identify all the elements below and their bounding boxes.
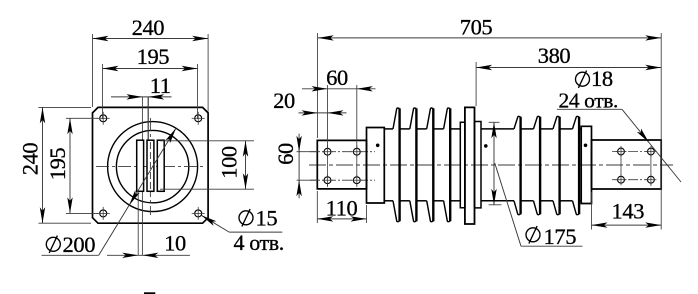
right view: left block hole 4 (353, 177, 360, 184)
svg-text:110: 110 (326, 196, 358, 221)
svg-text:100: 100 (217, 146, 242, 179)
dim diam 200: diameter symbol (46, 237, 60, 251)
svg-text:18: 18 (591, 66, 613, 91)
right view: left section shed 4 (444, 108, 451, 129)
right view: pin dot right of central flange (484, 145, 487, 148)
svg-text:15: 15 (256, 206, 278, 231)
svg-text:705: 705 (460, 15, 493, 40)
right view: core bottom edge segments (right section) (481, 200, 514, 202)
dim 20: extension line from hole column 1 (327, 85, 329, 149)
left view: mounting circle outer (diam 200) (108, 122, 198, 212)
dim 110: dimension line with arrows (317, 218, 366, 220)
dim 195 top: extension lines (102, 64, 104, 119)
svg-text:175: 175 (544, 224, 577, 249)
dim 60 left vertical: dimension line with outside arrows (298, 134, 300, 199)
svg-text:200: 200 (63, 232, 96, 257)
svg-text:240: 240 (18, 143, 43, 176)
right view: left adapter flange (367, 128, 385, 204)
dim 11 top: dimension line with outside arrows (111, 96, 172, 98)
svg-text:60: 60 (326, 65, 348, 90)
right view: left section shed 3 (427, 108, 434, 129)
view label letter (cut off at bottom) (144, 292, 155, 294)
left view: center line inside middle slot (149, 142, 151, 190)
right view: collar right of central flange (475, 122, 482, 208)
label diam 18: arrow on leader at hole (637, 129, 649, 143)
dim 195 left: extension lines (66, 117, 98, 119)
dim 60 left vertical: extension lines (297, 151, 317, 153)
dim diam 200: arrow upper right (165, 128, 176, 143)
right view: right end cap pin dot (584, 144, 587, 147)
left view: vertical center line through middle slot (149, 118, 151, 215)
right view: right block hole 2 (648, 148, 655, 155)
right view: left block hole 1 (324, 148, 331, 155)
right view: left adapter pin dot (376, 144, 379, 147)
dim 240 top: dimension line with arrows (93, 38, 209, 40)
right view: left block hole 3 (324, 177, 331, 184)
left view: corner hole top-left (100, 115, 107, 122)
dim 240 left: extension lines (39, 106, 92, 108)
dim 705: dimension line with arrows (318, 37, 661, 39)
right view: core top edge segments (right section) (481, 128, 514, 130)
left view: corner hole bottom-right (195, 210, 202, 217)
right view: left block hole 2 (353, 148, 360, 155)
dim 240 left: dimension line with arrows (42, 107, 44, 223)
left view: slot 2 (middle) (147, 140, 154, 191)
left view: flange plate outline (93, 107, 209, 223)
dim 20: dimension line with outside arrows (299, 112, 347, 114)
right view: right section shed 2 (534, 116, 541, 128)
left view: extension line pair for 11 dim (141, 97, 143, 255)
left view: slot 1 (137, 140, 144, 191)
right view: left terminal block (317, 140, 366, 189)
left view: mounting circle inner (116, 130, 188, 202)
right view: right section shed 4 (573, 116, 580, 128)
right view: right end cap (581, 126, 591, 203)
left view: corner hole bottom-left (100, 210, 107, 217)
svg-text:10: 10 (164, 230, 186, 255)
right view: core top edge segments (left section) (384, 128, 393, 130)
dim 380: extension line at central flange (475, 62, 477, 106)
svg-text:4 отв.: 4 отв. (234, 230, 284, 255)
svg-text:60: 60 (273, 143, 298, 165)
dim 705: right extension line (660, 33, 662, 230)
left view: horizontal center line (96, 166, 206, 168)
dim diam 175: leader line to text (495, 163, 521, 246)
dim 705: left extension line (317, 33, 319, 138)
label diam 18, 24 holes: leader line through hole (622, 109, 681, 182)
right view: right section shed 1 (514, 116, 521, 128)
dim 143: extension lines (591, 192, 593, 230)
right view: right block hole column line (620, 152, 622, 180)
dim 195 left: dimension line with arrows (69, 118, 71, 213)
right view: right terminal block (592, 140, 662, 189)
label diam 15: diameter symbol (239, 211, 253, 225)
right view: left section shed 2 (410, 108, 417, 129)
right view: left section shed 1 (393, 108, 400, 129)
dim 380: dimension line with arrows (476, 67, 661, 69)
right view: left block hole column lines (327, 145, 329, 187)
dim 195 top: dimension line with arrows (103, 68, 198, 70)
label diam 18, 24 holes: shelf line (557, 108, 622, 110)
right view: left block hole row lines (310, 151, 375, 153)
right view: right block hole 4 (648, 176, 655, 183)
svg-text:240: 240 (132, 15, 165, 40)
right view: central mounting flange (465, 107, 475, 224)
dim 60 top: dimension line with outside arrows (302, 88, 376, 90)
dim diam 200: diametral line across circle with leader from shelf (99, 128, 176, 255)
left view: corner hole top-right (195, 115, 202, 122)
dim diam 200: shelf line (42, 254, 99, 256)
svg-text:195: 195 (45, 148, 70, 181)
right view: main horizontal center line (309, 164, 673, 166)
dim 60 top: extension line from hole column 2 (356, 85, 358, 149)
svg-text:24 отв.: 24 отв. (559, 89, 618, 113)
right view: core bottom edge segments (left section) (384, 200, 393, 202)
right view: collar left of central flange (460, 122, 465, 208)
dim diam 200: arrow lower left (129, 190, 140, 205)
dim diam 175: dimension line with arrows (493, 122, 495, 205)
right view: right block hole 3 (618, 176, 625, 183)
right view: right section shed 3 (553, 116, 560, 128)
dim 143: dimension line with arrows (592, 224, 662, 226)
label diam 15: shelf line (229, 231, 282, 233)
dim 110: extension lines (316, 191, 318, 223)
dim diam 175: extension ticks (489, 121, 500, 123)
svg-text:143: 143 (612, 199, 645, 224)
svg-text:20: 20 (273, 88, 295, 113)
dim diam 175: diameter symbol (526, 228, 540, 242)
dim 100 right: extension lines (160, 140, 254, 142)
svg-text:195: 195 (137, 44, 170, 69)
svg-text:11: 11 (150, 73, 171, 98)
right view: right block hole row lines (612, 151, 656, 153)
label diam 18: diameter symbol (576, 72, 590, 86)
right view: right block hole 1 (618, 148, 625, 155)
dim 100 right: dimension line with arrows (245, 141, 247, 189)
label diam 15, 4 holes: leader arrow to bottom-right hole (201, 215, 229, 232)
left view: slot 3 (157, 140, 164, 191)
svg-text:380: 380 (538, 43, 571, 68)
dim 240 top: extension lines (92, 34, 94, 107)
left view: extension line for 10 dim (137, 191, 139, 255)
dim 10 bottom: dimension line with outside arrows (107, 254, 190, 256)
